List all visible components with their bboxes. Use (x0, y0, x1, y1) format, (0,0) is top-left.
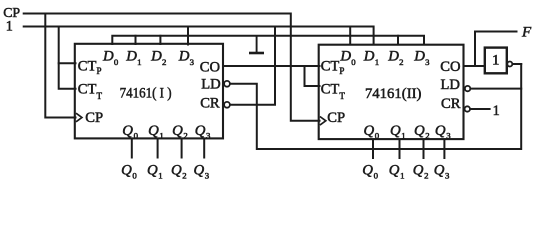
wire CO branch to CT_T chip2 (305, 66, 320, 86)
svg-text:LD: LD (201, 77, 220, 93)
wire ground bus (D inputs) (112, 36, 424, 45)
wire 1 to CT_P / CT_T of chip1 (59, 27, 76, 89)
svg-text:1: 1 (6, 18, 13, 34)
wire CO chip2 to inverter input (465, 65, 485, 67)
wire Q0 output stub chip1 (131, 140, 133, 158)
svg-text:Q: Q (390, 123, 401, 139)
svg-text:CR: CR (441, 96, 461, 112)
svg-text:0: 0 (132, 171, 137, 181)
wire Q1 output stub chip2 (399, 140, 401, 158)
wire Q2 output stub chip1 (181, 140, 183, 158)
wire inverter output to feedback vertical (512, 63, 521, 65)
svg-text:3: 3 (445, 171, 450, 181)
wire 1 to D3 of chip1 (187, 27, 189, 45)
svg-text:D: D (413, 48, 425, 64)
wire CT_P stub chip1 (59, 62, 76, 64)
wire Q1 output stub chip1 (157, 140, 159, 158)
bubble inverter output (507, 62, 512, 67)
wire CO chip1 to chip2 CT_P (224, 65, 320, 67)
svg-text:2: 2 (425, 131, 429, 141)
svg-text:LD: LD (441, 77, 460, 93)
svg-text:1: 1 (159, 131, 163, 141)
svg-text:Q: Q (195, 123, 206, 139)
inverter U3 box (485, 48, 507, 74)
wire logic-1 bus: from 1 label right, ends down at chip2 D1 (24, 27, 374, 45)
svg-text:Q: Q (171, 163, 182, 179)
ground (249, 36, 264, 53)
svg-text:1: 1 (492, 53, 500, 69)
svg-text:0: 0 (114, 57, 119, 67)
svg-text:74161( I ): 74161( I ) (120, 86, 172, 102)
svg-text:2: 2 (183, 131, 187, 141)
svg-text:F: F (521, 25, 532, 41)
bubble CR chip2 (465, 106, 470, 111)
svg-text:3: 3 (206, 131, 211, 141)
svg-text:CP: CP (327, 110, 345, 126)
wire LD chip1 feedback: down, along bottom, up to inverter output (230, 64, 521, 149)
svg-text:Q: Q (147, 163, 158, 179)
svg-text:Q: Q (148, 123, 159, 139)
svg-text:1: 1 (400, 171, 404, 181)
svg-text:3: 3 (425, 57, 430, 67)
wire 1 to CR of chip1 (230, 27, 275, 105)
svg-text:0: 0 (375, 131, 380, 141)
counter U2 74161(II) box (319, 45, 464, 139)
svg-text:1: 1 (158, 171, 162, 181)
svg-text:Q: Q (121, 163, 132, 179)
wire LD chip2 from feedback vertical (471, 88, 522, 90)
wire D2 stub chip2 (397, 36, 399, 45)
wire D1 stub chip1 (135, 36, 137, 44)
svg-text:2: 2 (182, 171, 186, 181)
wire CP bus: from CP label right to x=290.8, down to chip2 CP row (24, 14, 320, 121)
svg-text:D: D (150, 48, 162, 64)
svg-text:Q: Q (414, 123, 425, 139)
svg-text:3: 3 (205, 171, 210, 181)
wire CR chip2 stub to 1 (470, 108, 490, 110)
wire CP branch to chip1 CP input (45, 14, 75, 118)
svg-text:CO: CO (440, 59, 460, 75)
svg-text:2: 2 (399, 57, 403, 67)
svg-text:1: 1 (401, 131, 405, 141)
svg-text:Q: Q (435, 123, 446, 139)
svg-text:Q: Q (434, 163, 445, 179)
svg-text:2: 2 (424, 171, 428, 181)
svg-text:Q: Q (362, 163, 373, 179)
clock wedge chip1 (76, 113, 82, 122)
wire D2 stub chip1 (159, 36, 161, 44)
wire Q0 output stub chip2 (372, 140, 374, 158)
svg-text:Q: Q (364, 123, 375, 139)
counter U1 74161(I) box (75, 44, 223, 139)
bubble LD chip2 (465, 86, 470, 91)
svg-text:D: D (387, 48, 399, 64)
svg-text:1: 1 (493, 103, 500, 119)
bubble LD chip1 (224, 81, 230, 87)
svg-text:3: 3 (446, 131, 451, 141)
svg-text:Q: Q (122, 123, 133, 139)
wire 1 to D0 of chip2 (349, 27, 351, 45)
svg-text:0: 0 (374, 171, 379, 181)
svg-text:3: 3 (190, 57, 195, 67)
svg-text:D: D (125, 48, 137, 64)
svg-text:Q: Q (172, 123, 183, 139)
svg-text:1: 1 (137, 57, 141, 67)
wire Q3 output stub chip1 (203, 140, 205, 158)
svg-text:D: D (363, 48, 375, 64)
wire F tap from CO chip2 (475, 32, 517, 67)
svg-text:CP: CP (85, 110, 103, 126)
svg-text:Q: Q (389, 163, 400, 179)
svg-text:Q: Q (413, 163, 424, 179)
svg-text:0: 0 (351, 57, 356, 67)
wire Q2 output stub chip2 (423, 140, 425, 158)
svg-text:D: D (339, 48, 351, 64)
svg-text:0: 0 (134, 131, 139, 141)
clock wedge chip2 (320, 117, 326, 126)
svg-text:2: 2 (162, 57, 166, 67)
bubble CR chip1 (224, 102, 230, 108)
svg-text:D: D (178, 48, 190, 64)
svg-text:1: 1 (375, 57, 379, 67)
svg-text:74161(II): 74161(II) (365, 86, 422, 102)
svg-text:CO: CO (200, 59, 220, 75)
wire Q3 output stub chip2 (443, 140, 445, 158)
svg-text:CR: CR (200, 96, 220, 112)
svg-text:Q: Q (194, 163, 205, 179)
svg-text:D: D (102, 48, 114, 64)
